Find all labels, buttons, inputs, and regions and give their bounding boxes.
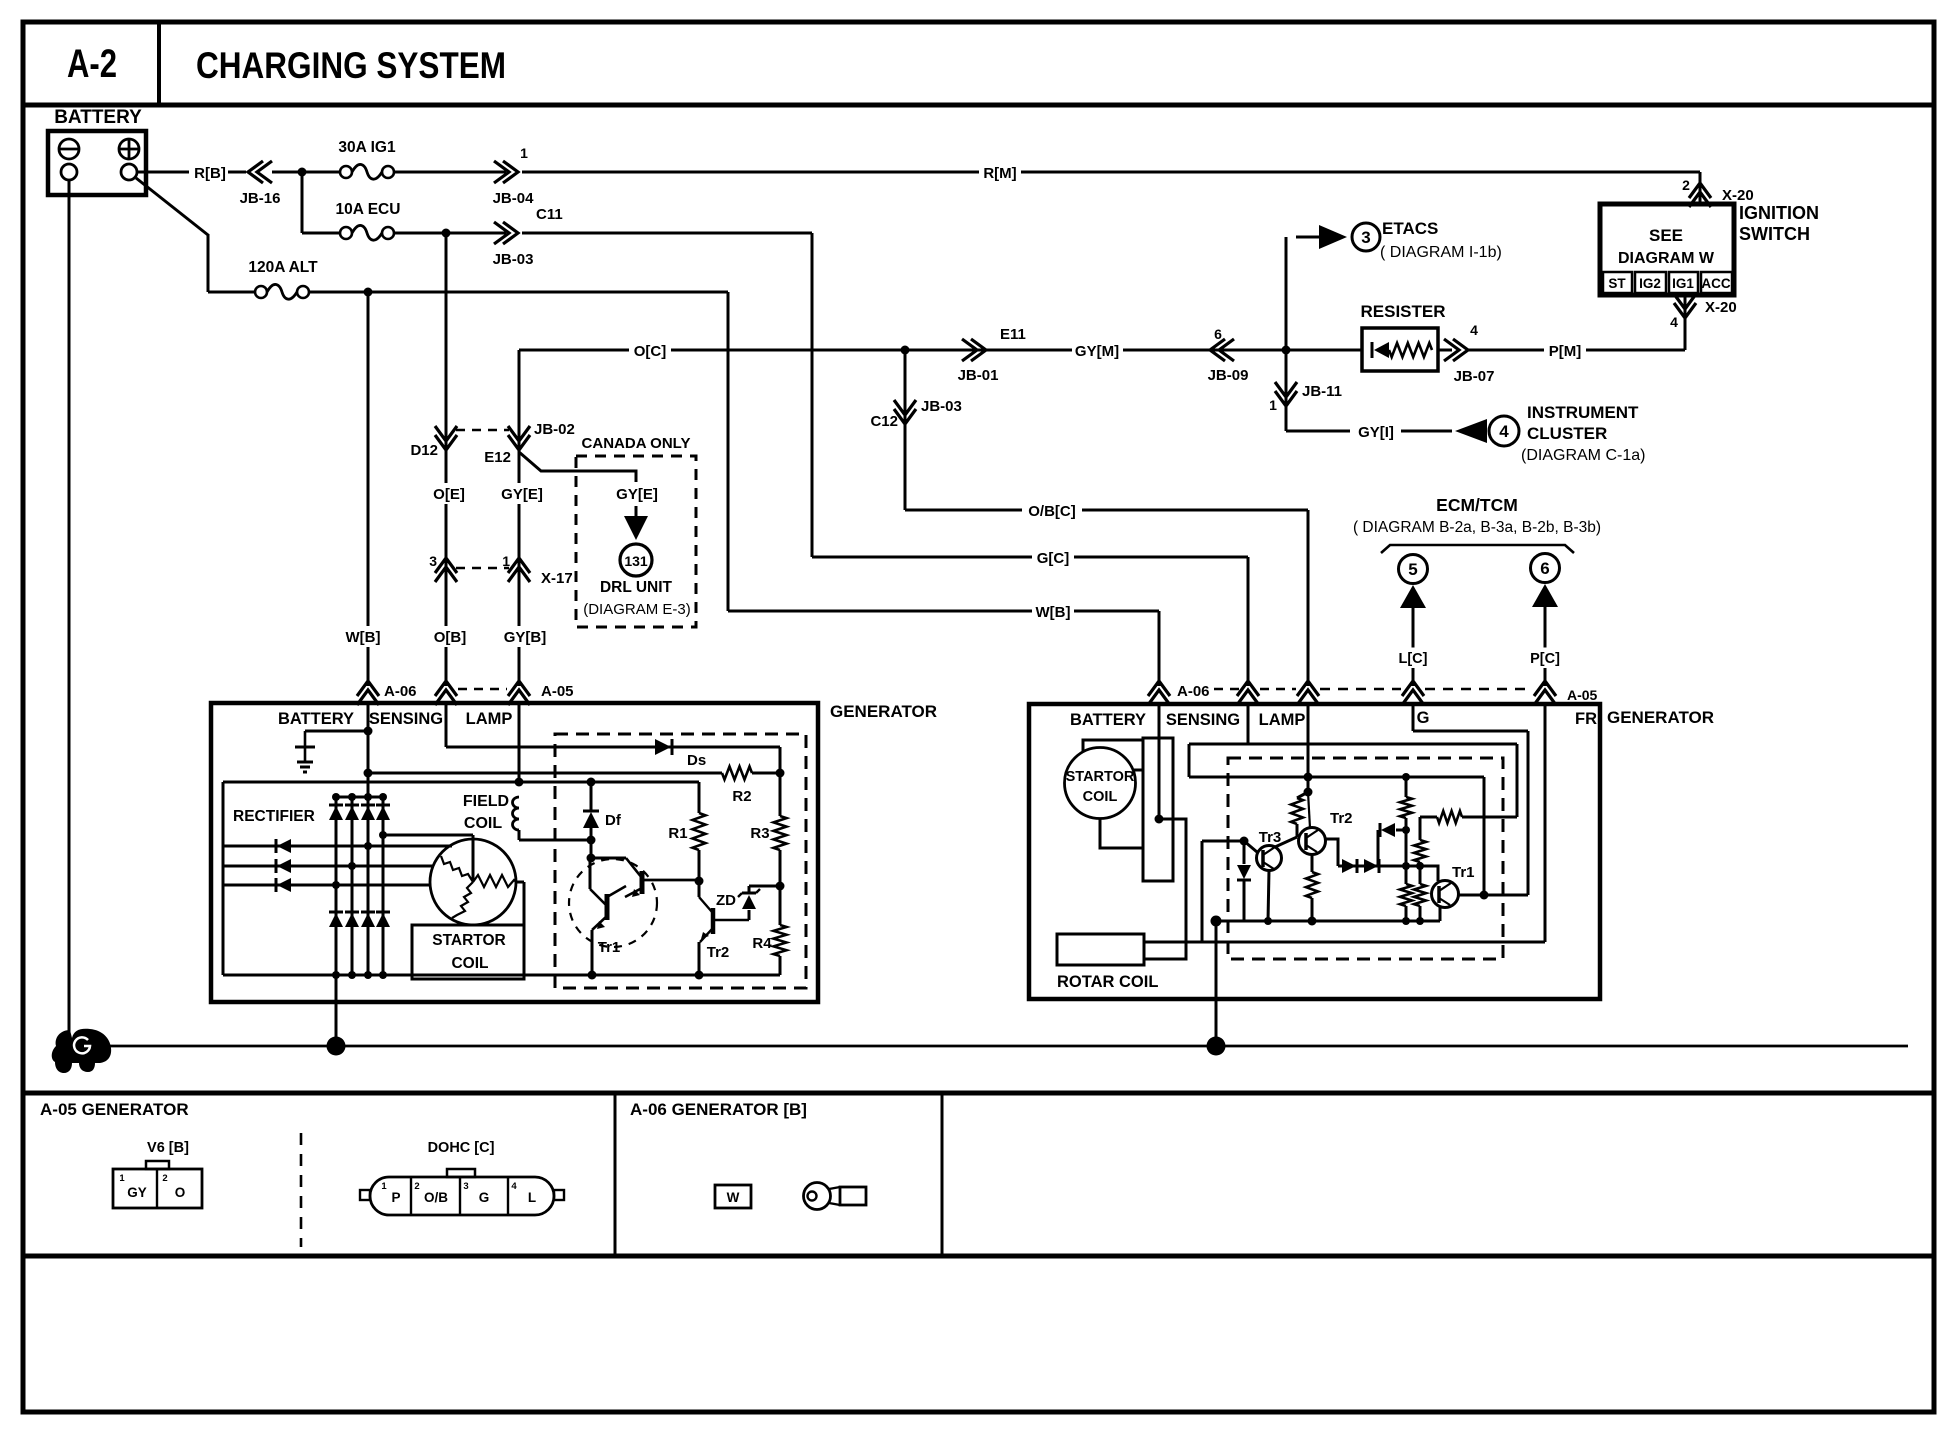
svg-text:JB-11: JB-11 [1302,383,1342,400]
svg-text:6: 6 [1540,559,1549,578]
wire Tr1 collector node [1458,894,1528,897]
phase diode 3 [277,878,291,892]
wire battery to R[B] [137,171,192,174]
wire rect column 1 [335,797,338,975]
ignition switch box [1600,204,1734,295]
svg-text:4: 4 [1499,422,1509,441]
wire label W[B] left [342,626,384,647]
resistor R2 [722,767,752,780]
wire battery terminal into box [367,292,370,686]
svg-text:R3: R3 [750,825,769,842]
svg-text:BATTERY: BATTERY [278,710,354,728]
svg-text:P[C]: P[C] [1530,651,1560,667]
svg-text:G: G [479,1190,490,1205]
svg-text:1: 1 [119,1173,125,1184]
resistor R4 [779,886,782,925]
svg-text:V6 [B]: V6 [B] [147,1140,189,1156]
svg-text:6: 6 [1214,326,1222,342]
svg-text:4: 4 [1470,322,1478,338]
node Tr1 emitter bus [588,971,597,980]
transistor Tr2 [711,908,716,934]
svg-text:R4: R4 [752,935,772,952]
wire to internal ground [305,730,368,733]
node junction feeding D12 [442,229,451,238]
phase diode 2 [277,859,291,873]
connector DOHC dividers [410,1177,412,1215]
svg-text:JB-03: JB-03 [493,251,534,268]
svg-text:GY[I]: GY[I] [1358,424,1394,441]
node ZD R3 R4 [776,882,785,891]
svg-text:BATTERY: BATTERY [1070,711,1146,729]
node lamp W2 [1304,773,1313,782]
svg-text:X-20: X-20 [1705,299,1737,316]
transistor Tr1 Q2 [640,871,645,894]
stator circle [430,839,516,925]
svg-text:5: 5 [1408,560,1417,579]
svg-text:ZD: ZD [716,892,736,909]
rectifier diode c3 top [361,806,375,820]
svg-text:ETACS: ETACS [1382,219,1438,238]
svg-text:LAMP: LAMP [466,710,513,728]
connector JB-07 chevron [1453,339,1468,361]
wire B+ bus [368,772,722,775]
svg-text:SENSING: SENSING [369,710,443,728]
connector DOHC tab [447,1169,475,1177]
wire G entry [1412,704,1415,731]
node D3 [1402,826,1410,834]
transistor Tr1 emitter run [591,930,594,975]
wire up to ETACS [1285,237,1288,350]
connector V6 divider [156,1169,158,1208]
svg-text:A-05: A-05 [541,683,574,700]
wire label GY[E] canada [612,483,663,504]
wire W1 to resistor row [1437,811,1462,823]
transistor Tr2 base wire [698,881,701,897]
svg-text:L: L [528,1190,536,1205]
svg-text:BATTERY: BATTERY [54,107,142,128]
svg-text:3: 3 [463,1181,468,1192]
wire ETACS junction to resister [1286,349,1362,352]
battery positive terminal [119,139,139,159]
svg-text:O[C]: O[C] [634,343,667,360]
svg-text:10A ECU: 10A ECU [336,201,401,218]
svg-text:COIL: COIL [1083,789,1118,805]
svg-text:ECM/TCM: ECM/TCM [1436,495,1518,515]
node Df bottom [587,836,596,845]
rotor coil box [1057,934,1144,965]
svg-text:C11: C11 [536,206,563,223]
wire fuse to JB-04 [394,171,506,174]
svg-text:2: 2 [414,1181,419,1192]
startor coil box [412,925,524,979]
svg-text:Ds: Ds [687,752,706,769]
svg-text:ST: ST [1608,276,1626,291]
dashed bus right 0 [1214,688,1242,691]
svg-text:FR: FR [1575,710,1597,728]
wire Tr1 base [1420,866,1438,881]
battery lower-right post [121,164,137,180]
wire battery term into rect [1158,704,1161,819]
wire label O/B[C] [1022,500,1082,521]
svg-text:30A IG1: 30A IG1 [338,139,396,156]
connector A-05 left chevron a [435,681,457,696]
resister R box [1362,328,1438,371]
fuse 10A ECU [340,227,352,239]
connector A-05 right chevron b [1297,681,1319,696]
svg-text:A-05 GENERATOR: A-05 GENERATOR [40,1100,189,1119]
connector A-05 right chevron c [1402,681,1424,696]
svg-text:A-2: A-2 [67,42,117,86]
svg-text:JB-04: JB-04 [493,190,535,207]
diode Ds [655,739,671,755]
wire to 120A fuse [208,291,255,294]
node R1 bottom [695,877,704,886]
wire label P[C] [1525,648,1566,669]
diode under Tr3 base [1243,841,1246,864]
svg-text:E12: E12 [484,449,511,466]
field coil inductor [513,797,520,830]
svg-text:JB-16: JB-16 [240,190,281,207]
node junction C12 [901,346,910,355]
svg-text:A-06: A-06 [384,683,417,700]
svg-text:RECTIFIER: RECTIFIER [233,808,315,825]
wire O[E] column [445,233,448,686]
node Tr1 collector [1480,891,1489,900]
svg-text:JB-03: JB-03 [921,398,962,415]
transistor Tr2 emitter [698,942,701,975]
wire W drop to battery term [1158,611,1161,686]
wire battery negative down [68,180,71,1040]
connector V6 tab [146,1161,169,1169]
dashed link X-17 [456,567,509,570]
internal ground symbol [304,731,307,747]
battery B1 box [48,131,146,195]
resistor R1 [698,782,701,813]
wire ALT run [309,291,728,294]
ignition switch cell IG1 [1669,272,1698,293]
dashed bus right 1 [1260,688,1296,691]
connector DOHC right tab [554,1190,564,1200]
svg-text:O/B[C]: O/B[C] [1028,503,1076,520]
transistor Tr1 Q1 [605,894,610,920]
svg-text:SEE: SEE [1649,226,1683,245]
node W[B] junction [364,288,373,297]
wire Tr2 emitter chain [1311,854,1314,872]
node battery rect [1155,815,1164,824]
svg-text:ACC: ACC [1701,276,1730,291]
connector E11 JB-01 chevron [971,339,986,361]
svg-text:R[B]: R[B] [194,165,226,182]
wire O/B[C] run [905,509,1308,512]
wire stator bottom tap [1100,818,1143,848]
right regulator dashed box [1228,758,1503,959]
wire battery diagonal to ALT [136,178,208,235]
resistor R3 [779,773,782,816]
wire lamp entry [1307,704,1310,777]
arrow to DRL unit [624,516,648,540]
svg-text:DOHC [C]: DOHC [C] [428,1140,495,1156]
connector W box [715,1185,751,1208]
wire W[B] run [728,610,1159,613]
ring terminal O [804,1183,831,1210]
svg-text:A-06 GENERATOR [B]: A-06 GENERATOR [B] [630,1100,807,1119]
diode chain D2 [1364,859,1378,873]
svg-text:Tr2: Tr2 [1330,810,1353,827]
svg-text:O/B: O/B [424,1190,448,1205]
svg-text:DIAGRAM W: DIAGRAM W [1618,250,1715,267]
wire C12 drop [904,350,907,510]
svg-text:COIL: COIL [464,815,502,832]
svg-text:Tr3: Tr3 [1259,829,1282,846]
resistor col A lower [1405,866,1408,884]
phase diode 1 [277,839,291,853]
wire label O[C] [629,340,671,361]
node Df top [587,778,596,787]
wire label P[M] [1466,349,1685,352]
svg-text:GY: GY [127,1185,147,1200]
wire junction drop to ECU fuse [301,172,304,233]
connector DOHC left tab [360,1190,370,1200]
transistor Tr1 Q1 base feed [589,858,592,889]
node junction ETACS [1282,346,1291,355]
ground line [100,1045,1908,1048]
svg-text:2: 2 [162,1173,167,1184]
ETACS circle 3 [1352,223,1380,251]
wire label GY[I] [1350,421,1401,442]
connector A-05 right chevron a [1237,681,1259,696]
connector DOHC body [370,1177,554,1215]
svg-text:O[B]: O[B] [434,629,467,646]
svg-text:A-06: A-06 [1177,683,1210,700]
svg-text:JB-01: JB-01 [958,367,999,384]
svg-text:R2: R2 [732,788,751,805]
wire drop x=728 to W[B] line [727,292,730,611]
wire drop to ignition switch [1699,172,1702,204]
dashed bus left [458,688,507,691]
left bottom bus [223,974,780,977]
svg-text:W: W [727,1190,740,1205]
rectifier diode c2 top [345,806,359,820]
connector cell divider A-05/A-06 [614,1093,617,1256]
node ground tap [364,727,373,736]
diode Df [590,782,593,812]
wire rect column 3 [367,773,370,975]
connector A-05 right chevron d [1534,681,1556,696]
ECM circle 6 [1531,554,1560,583]
svg-text:IG1: IG1 [1672,276,1694,291]
stator winding NW [441,856,473,882]
resistor above Tr2 [1297,792,1308,798]
svg-text:W[B]: W[B] [346,629,381,646]
wire stator mid tap [1134,769,1143,772]
svg-text:STARTOR: STARTOR [432,932,505,949]
svg-text:GY[E]: GY[E] [616,486,658,503]
dashed bus right 2 [1320,688,1401,691]
right generator box [1029,704,1600,999]
svg-text:(DIAGRAM E-3): (DIAGRAM E-3) [583,601,691,618]
svg-text:GY[B]: GY[B] [504,629,547,646]
rectifier diode c3 bottom [361,913,375,927]
wire label R[B] [189,162,231,183]
wire label G[C] [1032,547,1074,568]
wire right generator ground exit [1215,921,1218,1045]
node Tr2 emitter bus [695,971,704,980]
node Tr3 base [1240,837,1249,846]
connector C12 JB-03 chevron [894,409,916,424]
svg-text:R[M]: R[M] [983,165,1016,182]
svg-text:( DIAGRAM B-2a, B-3a, B-2b, B-: ( DIAGRAM B-2a, B-3a, B-2b, B-3b) [1353,519,1601,536]
svg-text:G[C]: G[C] [1037,550,1070,567]
canada only dashed box [576,456,696,627]
rectifier diode c4 top [376,806,390,820]
wire rotor loop [1144,819,1186,959]
stator winding E [473,875,516,887]
wire R[M] long run [522,171,1700,174]
wire drop x=812 to G[C] [811,233,814,557]
title cell divider [157,22,161,105]
svg-text:A-05: A-05 [1567,687,1598,703]
wire FR return [1144,941,1545,944]
connector X-17 right chevron [508,558,530,573]
ignition switch cell ACC [1701,272,1732,293]
wire R[B] to JB-16 [228,171,246,174]
svg-text:R1: R1 [668,825,687,842]
instrument cluster circle 4 [1489,416,1519,446]
transistor Tr1 right circle [1432,881,1459,908]
connector section bottom divider [23,1254,1934,1259]
rectifier diode c4 bottom [376,913,390,927]
left regulator dashed box [555,734,806,988]
wire label GY[E] [496,483,547,504]
svg-text:131: 131 [624,553,648,569]
wire rect column 2 [351,797,354,975]
chassis ground symbol [52,1029,111,1073]
svg-text:GY[M]: GY[M] [1075,343,1119,360]
battery lower-left post [61,164,77,180]
svg-text:COIL: COIL [451,955,488,972]
connector V6 body [113,1169,202,1208]
svg-text:JB-09: JB-09 [1208,367,1249,384]
wire diode chain [1338,865,1434,868]
node R3 top [776,769,785,778]
resistor col A link [1405,830,1408,866]
svg-text:Tr2: Tr2 [707,944,730,961]
rectifier diode c1 bottom [329,913,343,927]
wire rotor to Tr3 base [1201,841,1204,942]
wire JB-16 to fuse [272,171,340,174]
diode chain D1 [1342,859,1356,873]
wire GY[E] column [518,350,521,686]
svg-text:DRL UNIT: DRL UNIT [600,579,673,596]
transistor Tr1 Q2 base feed [590,857,626,860]
rectifier diode c1 top [329,806,343,820]
connector A-05 left chevron b [508,681,530,696]
resistor col B lower [1419,866,1422,884]
svg-text:LAMP: LAMP [1259,711,1306,729]
svg-text:SENSING: SENSING [1166,711,1240,729]
svg-text:120A ALT: 120A ALT [248,259,318,276]
transistor Tr3 circle [1257,846,1282,871]
svg-text:CHARGING SYSTEM: CHARGING SYSTEM [196,45,506,86]
wire field coil to Df node [518,830,521,840]
svg-text:JB-07: JB-07 [1454,368,1495,385]
wire G drop to sensing [1247,557,1250,686]
startor coil circle right [1065,748,1136,819]
dashed bus right 3 [1425,688,1533,691]
svg-text:( DIAGRAM I-1b): ( DIAGRAM I-1b) [1380,244,1502,261]
connector section top divider [23,1091,1934,1096]
node Tr1 collector [587,854,596,863]
svg-text:GY[E]: GY[E] [501,486,543,503]
connector JB-09 chevron [1210,339,1225,361]
svg-text:1: 1 [381,1181,387,1192]
svg-text:JB-02: JB-02 [534,421,575,438]
svg-text:O[E]: O[E] [433,486,465,503]
svg-text:INSTRUMENT: INSTRUMENT [1527,403,1639,422]
wire 782 bus [223,781,699,784]
resister diode element [1371,342,1374,358]
transistor Tr2 right circle [1299,828,1326,855]
wire G[C] run [812,556,1248,559]
svg-text:CANADA ONLY: CANADA ONLY [582,435,691,452]
wire C11 to corner [522,232,812,235]
svg-text:4: 4 [511,1181,517,1192]
svg-text:W[B]: W[B] [1036,604,1071,621]
wire to instrument cluster [1286,430,1452,433]
diode D3 branch [1377,830,1380,866]
svg-text:Tr1: Tr1 [1452,864,1475,881]
svg-text:RESISTER: RESISTER [1360,302,1445,321]
svg-text:D12: D12 [410,442,438,459]
svg-text:1: 1 [520,145,528,161]
canada only label [584,432,689,453]
connector A-06 right chevron [1148,681,1170,696]
connector A-06 left chevron [357,681,379,696]
svg-text:GENERATOR: GENERATOR [1607,708,1714,727]
svg-text:ROTAR COIL: ROTAR COIL [1057,973,1158,991]
svg-text:IGNITION: IGNITION [1739,203,1819,223]
svg-text:4: 4 [1670,314,1678,330]
ignition switch cell IG2 [1635,272,1666,293]
svg-text:P[M]: P[M] [1549,343,1582,360]
wire Tr1 emitter [1439,907,1442,921]
wire label R[M] [979,162,1021,183]
svg-text:1: 1 [1269,397,1277,413]
node field coil top [515,778,524,787]
neutral wire [383,834,473,837]
connector D12 chevron [435,435,457,450]
wire Tr3 collector [1275,837,1297,847]
svg-text:2: 2 [1682,177,1690,193]
svg-text:IG2: IG2 [1639,276,1661,291]
wire sensing terminal into box [445,232,448,235]
connector X-17 left chevron [435,558,457,573]
section dashed divider [300,1133,303,1247]
svg-text:O: O [175,1185,186,1200]
resistor col A upper [1405,792,1408,797]
wire O[C] GY[M] run [519,349,1362,352]
arrow to instrument cluster [1455,419,1487,443]
wire FR entry [1544,704,1547,942]
svg-text:Tr1: Tr1 [598,939,621,956]
svg-text:3: 3 [429,553,437,569]
wire label O[B] [429,626,471,647]
svg-text:1: 1 [502,553,510,569]
wire Tr3 emitter [1268,870,1269,921]
node Tr3 emitter bus [1264,917,1272,925]
svg-text:SWITCH: SWITCH [1739,224,1810,244]
title band divider line [23,103,1934,108]
